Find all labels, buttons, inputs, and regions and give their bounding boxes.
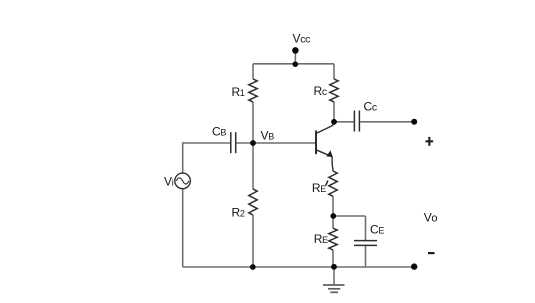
- label plus sign: [426, 137, 434, 146]
- transistor Q1 collector lead: [316, 122, 334, 134]
- wire RC top lead: [333, 64, 335, 79]
- svg-text:Vo: Vo: [424, 210, 438, 224]
- svg-text:R2: R2: [232, 206, 245, 220]
- resistor RE: [329, 228, 337, 250]
- wire R2 top lead: [252, 143, 254, 189]
- wire RC bottom to collector node: [333, 102, 335, 122]
- wire ground stem: [333, 267, 335, 284]
- svg-text:RE: RE: [312, 181, 326, 195]
- svg-text:VB: VB: [261, 129, 275, 143]
- wire R1 top lead: [252, 64, 254, 79]
- node output + terminal: [411, 119, 417, 125]
- wire input to CB left plate: [183, 142, 230, 144]
- capacitor CB plates: [231, 132, 236, 153]
- svg-text:Vcc: Vcc: [293, 32, 311, 46]
- wire R2 bottom lead: [252, 215, 254, 267]
- resistor R2: [249, 189, 257, 215]
- wire R1 bottom to node VB: [252, 102, 254, 143]
- node emitter junction: [330, 213, 336, 219]
- wire bottom rail: [183, 266, 414, 268]
- wire CC right plate to output terminal: [360, 121, 414, 123]
- ground: [323, 285, 345, 292]
- resistor RC: [330, 79, 338, 102]
- svg-text:Cc: Cc: [364, 100, 377, 114]
- wire collector node to CC left plate: [334, 121, 354, 123]
- capacitor CC plates: [354, 111, 359, 132]
- transistor Q1 emitter arrow: [327, 151, 332, 156]
- wire CB right plate to base (through node VB): [236, 142, 315, 144]
- wire CE bottom vertical: [365, 246, 367, 267]
- label RE prime tick: [326, 180, 328, 185]
- svg-text:R1: R1: [232, 85, 245, 99]
- node RE bottom junction: [331, 264, 337, 270]
- node output - terminal: [411, 263, 417, 269]
- wire left vertical below Vi: [182, 189, 184, 267]
- svg-text:Vi: Vi: [164, 175, 174, 189]
- capacitor CE plates: [354, 241, 377, 246]
- svg-text:CB: CB: [212, 125, 226, 139]
- node VCC terminal dot: [292, 47, 299, 54]
- svg-text:RE: RE: [314, 232, 328, 246]
- label minus sign: [428, 252, 435, 254]
- source Vi circle: [175, 173, 191, 189]
- resistor R1: [249, 79, 257, 102]
- node VCC rail junction: [293, 61, 299, 67]
- transistor Q1 base bar: [315, 131, 317, 155]
- node VB junction: [250, 140, 256, 146]
- wire left vertical above Vi: [182, 142, 184, 173]
- wire CE top vertical: [365, 216, 367, 240]
- wire VCC stub: [294, 50, 296, 63]
- wire node to CE branch horizontal: [333, 215, 366, 217]
- node collector junction: [331, 119, 337, 125]
- wire RE bottom lead: [332, 250, 334, 267]
- resistor RE': [329, 171, 337, 196]
- node R2 bottom junction: [250, 264, 256, 270]
- svg-text:Rc: Rc: [314, 84, 327, 98]
- wire RE' bottom to RE top: [332, 196, 334, 228]
- transistor Q1 emitter lead: [316, 150, 333, 172]
- source Vi sine wave: [176, 178, 189, 184]
- wire top supply rail: [253, 63, 334, 65]
- svg-text:CE: CE: [370, 223, 384, 237]
